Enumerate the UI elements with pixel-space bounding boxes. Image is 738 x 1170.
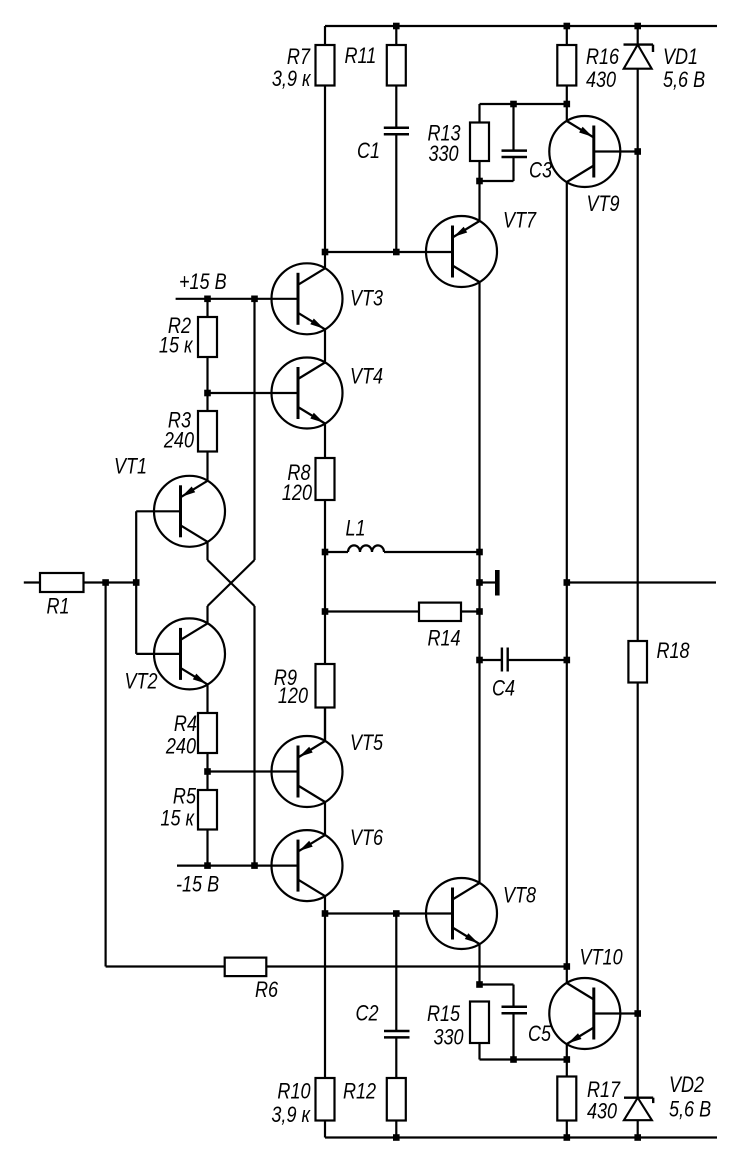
resistor R3 bbox=[198, 411, 217, 452]
label VT9 bbox=[587, 192, 620, 216]
svg-text:R1: R1 bbox=[47, 595, 70, 619]
node junction L1 tap bbox=[322, 549, 329, 556]
wire R3 bottom lead bbox=[206, 452, 208, 481]
svg-text:-15 В: -15 В bbox=[176, 873, 219, 897]
wire VT5 base wire bbox=[208, 770, 299, 772]
node junction VT8-emitter/R15 bbox=[476, 981, 483, 988]
node junction L1 right bbox=[476, 549, 483, 556]
label R13 bbox=[428, 122, 461, 146]
label R15 bbox=[427, 1002, 461, 1026]
label R9 bbox=[274, 666, 297, 690]
transistor VT8 bbox=[426, 878, 497, 949]
capacitor C3 bbox=[502, 151, 528, 157]
wire VT2 collector lead bbox=[206, 606, 208, 623]
transistor VT3 bbox=[272, 263, 343, 334]
svg-text:3,9 к: 3,9 к bbox=[271, 1103, 311, 1127]
wire R1 to input node bbox=[84, 581, 137, 583]
label R18 bbox=[657, 639, 691, 663]
wire VT2-collector diagonal bbox=[208, 560, 255, 606]
wire R9 bottom lead bbox=[324, 708, 326, 742]
svg-text:R7: R7 bbox=[287, 45, 311, 69]
capacitor C4 bbox=[502, 648, 508, 672]
svg-text:R18: R18 bbox=[657, 639, 691, 663]
svg-text:15 к: 15 к bbox=[160, 807, 195, 831]
node junction R13/C3/VT7 bbox=[476, 178, 483, 185]
svg-text:R6: R6 bbox=[255, 978, 279, 1002]
svg-text:R4: R4 bbox=[174, 712, 197, 736]
label VD2 value 5,6 В bbox=[669, 1098, 711, 1122]
svg-text:VT10: VT10 bbox=[580, 946, 624, 970]
node junction VT2-collector/+15V bbox=[251, 296, 258, 303]
label R11 bbox=[345, 44, 377, 68]
wire VT9 emitter lead bbox=[566, 104, 568, 121]
resistor R2 bbox=[198, 317, 217, 357]
wire VD2 bottom lead bbox=[637, 1120, 639, 1137]
resistor R15 bbox=[470, 1002, 489, 1044]
label R16 value 430 bbox=[586, 68, 617, 92]
label VT4 bbox=[350, 365, 383, 389]
resistor R10 bbox=[316, 1078, 335, 1121]
wire VT9 base lead bbox=[594, 150, 638, 152]
label R1 bbox=[47, 595, 70, 619]
transistor VT9 bbox=[549, 116, 620, 187]
wire R5 top lead bbox=[206, 772, 208, 791]
wire output line right bbox=[567, 581, 716, 583]
svg-text:C5: C5 bbox=[528, 1022, 552, 1046]
wire VT1 collector lead bbox=[206, 542, 208, 560]
node junction output tap bbox=[476, 579, 483, 586]
node junction R7/VT3 bbox=[322, 249, 329, 256]
node junction feedback/input bbox=[102, 579, 109, 586]
wire R15 bottom lead bbox=[480, 1043, 567, 1060]
wire R4 bottom lead bbox=[206, 753, 208, 772]
svg-text:L1: L1 bbox=[346, 517, 366, 541]
label R2 bbox=[168, 314, 191, 338]
svg-text:R10: R10 bbox=[277, 1080, 311, 1104]
wire VT8-emitter to C5 bbox=[480, 983, 514, 985]
svg-text:R16: R16 bbox=[586, 45, 620, 69]
wire R11-C1 lead bbox=[395, 86, 397, 128]
label R9 value 120 bbox=[278, 684, 309, 708]
node junction R17 bottom bbox=[564, 1134, 571, 1141]
svg-text:5,6 В: 5,6 В bbox=[663, 68, 705, 92]
wire R14 right lead bbox=[461, 610, 480, 612]
wire VT4 base wire bbox=[208, 392, 299, 394]
wire C1 bottom lead bbox=[395, 134, 397, 252]
node junction R2-top bbox=[204, 296, 211, 303]
node junction C4 left bbox=[476, 657, 483, 664]
wire VT3 emitter to VT4 bbox=[324, 329, 326, 362]
wire VT3-collector to VT7-base bbox=[325, 251, 453, 253]
node junction VT6-emitter/R10 bbox=[322, 910, 329, 917]
svg-text:120: 120 bbox=[282, 481, 313, 505]
wire C2 top lead bbox=[395, 914, 397, 1032]
label R7 bbox=[287, 45, 311, 69]
wire VT10 collector lead bbox=[566, 967, 568, 984]
label R16 bbox=[586, 45, 620, 69]
label C2 bbox=[356, 1002, 379, 1026]
svg-text:VT3: VT3 bbox=[350, 287, 383, 311]
svg-text:VT7: VT7 bbox=[503, 209, 537, 233]
wire C3 top lead bbox=[512, 104, 514, 151]
svg-text:5,6 В: 5,6 В bbox=[669, 1098, 711, 1122]
transistor VT2 bbox=[154, 618, 225, 689]
wire VT4 emitter lead bbox=[324, 424, 326, 459]
wire R7 bottom lead bbox=[324, 86, 326, 253]
label VD1 value 5,6 В bbox=[663, 68, 705, 92]
label C1 bbox=[357, 139, 380, 163]
node junction VT1-collector/-15V bbox=[251, 862, 258, 869]
label R4 value 240 bbox=[165, 735, 197, 759]
label VT2 bbox=[125, 670, 158, 694]
transistor VT6 bbox=[272, 830, 343, 901]
label R6 bbox=[255, 978, 279, 1002]
wire VD1 to R18 bbox=[637, 69, 639, 641]
svg-text:VT2: VT2 bbox=[125, 670, 158, 694]
node junction R17-top/VT10-emitter bbox=[564, 1056, 571, 1063]
node junction feedback/output bbox=[564, 963, 571, 970]
wire R10 top vertical bbox=[324, 914, 326, 1079]
wire R12 bottom lead bbox=[395, 1121, 397, 1138]
wire +15V rail bbox=[176, 298, 298, 300]
svg-text:VT4: VT4 bbox=[350, 365, 383, 389]
resistor R7 bbox=[316, 45, 335, 86]
diode VD2 (zener) bbox=[624, 1098, 653, 1121]
node junction R12 bottom bbox=[393, 1134, 400, 1141]
label VT10 bbox=[580, 946, 624, 970]
node junction R11-top bbox=[393, 23, 400, 30]
svg-text:R17: R17 bbox=[587, 1078, 621, 1102]
label R3 value 240 bbox=[163, 429, 195, 453]
wire output stub bbox=[480, 581, 496, 583]
resistor R11 bbox=[387, 45, 406, 86]
wire VT1/VT2 base vertical bbox=[135, 511, 137, 654]
resistor R8 bbox=[316, 458, 335, 500]
label L1 bbox=[346, 517, 366, 541]
wire C2 bottom lead bbox=[395, 1037, 397, 1078]
wire feedback right bbox=[266, 965, 567, 967]
wire R2 top lead bbox=[206, 299, 208, 317]
label VT5 bbox=[350, 731, 384, 755]
label C4 bbox=[492, 677, 515, 701]
wire VT2-collector vertical to +15V bbox=[253, 299, 255, 560]
label R15 value 330 bbox=[434, 1026, 465, 1050]
resistor R14 bbox=[419, 603, 461, 621]
transistor VT10 bbox=[549, 978, 620, 1049]
wire R8 to R9 vertical bbox=[324, 500, 326, 664]
label R17 bbox=[587, 1078, 621, 1102]
wire bottom supply rail bbox=[325, 1136, 717, 1138]
node junction R4/R5/VT5-base bbox=[204, 768, 211, 775]
wire VT10 emitter lead bbox=[566, 1044, 568, 1060]
wire VT1 base wire bbox=[136, 510, 180, 512]
label R17 value 430 bbox=[587, 1100, 618, 1124]
resistor R1 bbox=[40, 573, 84, 592]
capacitor C5 bbox=[502, 1007, 528, 1014]
resistor R5 bbox=[198, 790, 217, 830]
wire R17 bottom lead bbox=[566, 1121, 568, 1138]
resistor R17 bbox=[557, 1077, 576, 1121]
wire R14 left lead bbox=[325, 610, 419, 612]
label R7 value 3,9 к bbox=[272, 67, 312, 91]
node junction VT9-collector/output bbox=[564, 579, 571, 586]
wire feedback left bbox=[106, 965, 225, 967]
wire VT5 collector to VT6 bbox=[324, 802, 326, 835]
wire R13 top lead bbox=[480, 104, 567, 123]
label R4 bbox=[174, 712, 197, 736]
node junction R16/VT9 bbox=[564, 101, 571, 108]
node junction input/VT1-VT2 base bbox=[133, 579, 140, 586]
resistor R9 bbox=[316, 664, 335, 708]
wire VT1-collector diagonal bbox=[208, 560, 255, 606]
node junction VD2 bottom bbox=[634, 1134, 641, 1141]
wire VT6-emitter to VT8-base bbox=[325, 912, 453, 914]
node junction VT10-base/R18 bbox=[634, 1010, 641, 1017]
wire VT3 collector lead bbox=[324, 252, 326, 268]
label VD1 bbox=[663, 45, 698, 69]
label R5 bbox=[173, 785, 197, 809]
label +15 В bbox=[179, 270, 227, 294]
label R3 bbox=[168, 409, 191, 433]
wire VD1 top lead bbox=[637, 26, 639, 45]
label C3 bbox=[529, 159, 552, 183]
transistor VT5 bbox=[272, 736, 343, 807]
resistor R12 bbox=[387, 1078, 406, 1121]
svg-text:VD1: VD1 bbox=[663, 45, 698, 69]
svg-text:R5: R5 bbox=[173, 785, 197, 809]
wire VT6 emitter lead bbox=[324, 896, 326, 914]
label R14 bbox=[428, 627, 461, 651]
wire C4 right lead bbox=[508, 659, 567, 661]
wire R18 bottom lead bbox=[637, 683, 639, 1098]
node junction C3-top bbox=[510, 101, 517, 108]
wire R2 bottom lead bbox=[206, 357, 208, 393]
svg-text:240: 240 bbox=[163, 429, 195, 453]
node junction R14 right bbox=[476, 608, 483, 615]
wire VT2 base wire bbox=[136, 653, 180, 655]
wire C4 left lead bbox=[480, 659, 502, 661]
wire -15V rail bbox=[177, 864, 298, 866]
wire VT8 emitter lead bbox=[478, 944, 480, 985]
label VT3 bbox=[350, 287, 383, 311]
label VD2 bbox=[669, 1073, 704, 1097]
label R2 value 15 к bbox=[159, 334, 194, 358]
node junction C1/VT7-base bbox=[393, 249, 400, 256]
label R8 bbox=[287, 461, 311, 485]
svg-text:VT5: VT5 bbox=[350, 731, 384, 755]
wire R7 top lead bbox=[324, 26, 326, 45]
node junction VD1-top bbox=[634, 23, 641, 30]
label R8 value 120 bbox=[282, 481, 313, 505]
svg-text:R14: R14 bbox=[428, 627, 461, 651]
resistor R18 bbox=[628, 641, 647, 683]
label VT1 bbox=[114, 455, 147, 479]
wire feedback vertical bbox=[104, 583, 106, 967]
diode VD1 (zener) bbox=[624, 45, 654, 69]
wire input stub bbox=[24, 581, 40, 583]
label R5 value 15 к bbox=[160, 807, 195, 831]
svg-text:R15: R15 bbox=[427, 1002, 461, 1026]
wire top supply rail bbox=[325, 25, 717, 27]
node junction R2/R3/VT4-base bbox=[204, 390, 211, 397]
svg-text:240: 240 bbox=[165, 735, 197, 759]
svg-text:C3: C3 bbox=[529, 159, 552, 183]
transistor VT7 bbox=[426, 216, 497, 287]
wire VT9 collector lead bbox=[566, 182, 568, 967]
node junction C4 right bbox=[564, 657, 571, 664]
wire VT5 emitter lead bbox=[324, 708, 326, 742]
wire R16 top lead bbox=[566, 26, 568, 45]
svg-text:+15 В: +15 В bbox=[179, 270, 227, 294]
wire VT7 emitter lead bbox=[478, 181, 480, 221]
wire R11 top lead bbox=[395, 26, 397, 45]
transistor VT4 bbox=[272, 358, 343, 429]
wire R3 top lead bbox=[206, 393, 208, 411]
svg-text:430: 430 bbox=[586, 68, 617, 92]
inductor L1 bbox=[325, 545, 480, 552]
svg-text:330: 330 bbox=[434, 1026, 465, 1050]
resistor R16 bbox=[557, 45, 576, 86]
node junction R5/-15V bbox=[204, 862, 211, 869]
wire R5 bottom lead bbox=[206, 830, 208, 866]
svg-text:VD2: VD2 bbox=[669, 1073, 704, 1097]
wire C3 bottom lead bbox=[480, 157, 514, 181]
label R12 bbox=[343, 1080, 376, 1104]
svg-text:15 к: 15 к bbox=[159, 334, 194, 358]
svg-text:R12: R12 bbox=[343, 1080, 376, 1104]
transistor VT1 bbox=[154, 476, 225, 547]
node junction C2 top bbox=[393, 910, 400, 917]
wire R10 bottom lead bbox=[324, 1121, 326, 1138]
node junction C5 bottom bbox=[510, 1056, 517, 1063]
node output terminal bar bbox=[495, 570, 500, 596]
wire VT1-collector vertical to -15V bbox=[253, 606, 255, 866]
capacitor C2 bbox=[384, 1031, 410, 1037]
wire R16 bottom lead bbox=[566, 86, 568, 105]
svg-text:C2: C2 bbox=[356, 1002, 379, 1026]
node junction R16-top bbox=[564, 23, 571, 30]
wire VT2 emitter lead bbox=[206, 684, 208, 713]
label R10 bbox=[277, 1080, 311, 1104]
svg-text:VT6: VT6 bbox=[350, 826, 384, 850]
label VT6 bbox=[350, 826, 384, 850]
svg-text:120: 120 bbox=[278, 684, 309, 708]
label R13 value 330 bbox=[429, 142, 460, 166]
capacitor C1 bbox=[384, 128, 409, 134]
resistor R13 bbox=[470, 123, 489, 162]
svg-text:330: 330 bbox=[429, 142, 460, 166]
resistor R4 bbox=[198, 713, 217, 753]
wire C5 bottom lead bbox=[512, 1013, 514, 1059]
label VT7 bbox=[503, 209, 537, 233]
label C5 bbox=[528, 1022, 552, 1046]
svg-text:C1: C1 bbox=[357, 139, 380, 163]
svg-text:C4: C4 bbox=[492, 677, 515, 701]
svg-text:R11: R11 bbox=[345, 44, 377, 68]
label R10 value 3,9 к bbox=[271, 1103, 311, 1127]
wire R17 top lead bbox=[566, 1060, 568, 1077]
svg-text:VT8: VT8 bbox=[503, 884, 537, 908]
wire VT7 collector lead bbox=[478, 282, 480, 883]
node junction R14 left bbox=[322, 608, 329, 615]
node junction VT9-base/VD1 bbox=[634, 148, 641, 155]
wire C5 top lead bbox=[512, 985, 514, 1007]
wire R13 bottom lead bbox=[478, 161, 480, 181]
label VT8 bbox=[503, 884, 537, 908]
wire VT10 base lead bbox=[594, 1012, 638, 1014]
svg-text:VT1: VT1 bbox=[114, 455, 147, 479]
svg-text:VT9: VT9 bbox=[587, 192, 620, 216]
resistor R6 bbox=[225, 958, 267, 977]
svg-text:430: 430 bbox=[587, 1100, 618, 1124]
label -15 В bbox=[176, 873, 219, 897]
svg-text:3,9 к: 3,9 к bbox=[272, 67, 312, 91]
